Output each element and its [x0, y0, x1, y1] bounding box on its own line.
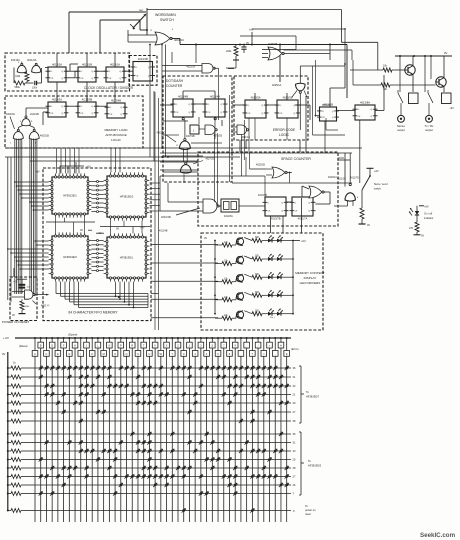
- svg-text:Q: Q: [91, 71, 93, 73]
- svg-text:+6V: +6V: [374, 170, 379, 173]
- svg-text:DOT/DASH: DOT/DASH: [166, 79, 184, 83]
- label words/min switch: [155, 13, 176, 22]
- svg-text:Q: Q: [126, 353, 128, 356]
- wire anti-bounce chain: [43, 96, 107, 125]
- bracket to HF3813E/7: [299, 366, 320, 423]
- inverter pair block: [221, 199, 239, 218]
- svg-text:O: O: [114, 353, 116, 356]
- wire 0V matrix left bus: [2, 352, 8, 511]
- svg-text:4025/1A: 4025/1A: [272, 84, 282, 87]
- wire space counter: [219, 186, 331, 206]
- wire into por box top: [13, 268, 15, 277]
- flip-flop 4013/5A: [245, 100, 266, 118]
- svg-text:ANTI-BOUNCE: ANTI-BOUNCE: [105, 133, 126, 137]
- svg-text:Q: Q: [91, 106, 93, 108]
- arrow label 4002: [33, 301, 37, 305]
- labels 40F13C 4011/3A: [11, 58, 37, 62]
- matrix row lines: [35, 368, 291, 511]
- svg-text:4001/1B: 4001/1B: [161, 215, 171, 219]
- terminal morse output: [397, 115, 405, 132]
- resistor 10k: [350, 65, 405, 73]
- svg-text:output: output: [425, 128, 433, 132]
- svg-text:power on: power on: [305, 508, 316, 512]
- flip-flop 4013/1B: [78, 67, 96, 82]
- wire led left bus: [214, 240, 216, 315]
- oscillator loop wires: [14, 62, 48, 84]
- flip-flop 4013/6B: [320, 107, 337, 121]
- wire from switch to clock box: [69, 12, 156, 53]
- wire chip2 to right edge: [149, 183, 160, 211]
- capacitor at 0V rail: [241, 42, 249, 53]
- labels 4020/1A 4011/7B right: [328, 176, 359, 180]
- svg-text:Q: Q: [148, 67, 150, 69]
- dashed box 64 character fifo memory: [43, 168, 151, 321]
- label 4011/1C arrow: [157, 132, 177, 143]
- svg-text:4013/5A: 4013/5A: [250, 95, 260, 99]
- svg-text:9: 9: [20, 121, 21, 123]
- wire chip interconnect top pair: [91, 181, 103, 213]
- dashed box clock oscillator divider: [5, 53, 130, 91]
- flip-flop 4013/4B: [107, 103, 125, 118]
- svg-text:1: 1: [10, 143, 11, 145]
- svg-text:U: U: [148, 353, 150, 356]
- bracket to HF3813E/3: [299, 432, 322, 495]
- wire +6V matrix bus: [3, 336, 291, 340]
- svg-text:Q: Q: [119, 78, 121, 80]
- svg-text:D: D: [51, 345, 53, 348]
- nor dome gate dot/dash upper: [176, 120, 190, 150]
- matrix row pin numbers group 2: [293, 432, 296, 496]
- svg-text:4011/5A: 4011/5A: [224, 215, 233, 218]
- svg-text:M: M: [103, 353, 105, 356]
- svg-text:Q: Q: [120, 114, 122, 116]
- label to power on reset: [293, 504, 316, 516]
- svg-text:MEMORY LOAD: MEMORY LOAD: [104, 128, 128, 132]
- svg-text:4007/1B: 4007/1B: [186, 136, 195, 138]
- svg-text:G: G: [68, 353, 70, 356]
- nand gate 4011/1A top: [162, 64, 219, 77]
- flip-flop 4013/4B dot: [173, 99, 193, 117]
- svg-text:switch: switch: [374, 188, 382, 191]
- svg-text:Q: Q: [91, 113, 93, 115]
- wire clock to antibounce stubs: [57, 82, 115, 103]
- svg-text:HF3813E/3: HF3813E/3: [63, 255, 77, 259]
- svg-text:580k: 580k: [15, 86, 21, 89]
- matrix row pin numbers group 1: [293, 366, 296, 423]
- svg-text:4011/1A: 4011/1A: [186, 66, 195, 69]
- transistor Q1 morse: [405, 56, 415, 92]
- nor gate U-4001/1C: [150, 29, 174, 45]
- svg-text:Par l: Par l: [270, 316, 275, 319]
- svg-text:N: N: [108, 345, 110, 348]
- capacitor 100n: [32, 81, 42, 90]
- svg-text:Q: Q: [61, 71, 63, 73]
- wire antibounce to chip1 top: [57, 148, 121, 173]
- svg-text:4011/4B: 4011/4B: [159, 231, 168, 233]
- svg-text:0V: 0V: [367, 224, 370, 227]
- resistor 12k: [353, 60, 436, 91]
- svg-text:+6V: +6V: [86, 166, 91, 169]
- svg-text:MEMORY CONTENT: MEMORY CONTENT: [295, 271, 325, 275]
- flip-flop 4013/3B: [78, 102, 96, 117]
- svg-text:COUNTER: COUNTER: [166, 84, 183, 88]
- svg-text:4013/8A: 4013/8A: [360, 100, 370, 104]
- resistor 100k mid: [15, 72, 33, 83]
- power on reset circuit: [13, 279, 31, 290]
- dashed box power on reset: [10, 277, 37, 321]
- svg-text:Q: Q: [281, 202, 283, 204]
- svg-text:Q: Q: [370, 109, 372, 111]
- flip-flop 4013/2A: [48, 67, 66, 82]
- wire bundle below dome gates: [8, 139, 37, 302]
- flip-flop 4013/3A: [48, 102, 66, 117]
- label on/off indicator: [417, 206, 434, 221]
- flip-flop 4013/8A: [355, 105, 375, 120]
- matrix diodes: [39, 366, 289, 513]
- wire chip interconnect bottom pair: [91, 240, 103, 272]
- svg-text:4011/1B: 4011/1B: [30, 113, 39, 116]
- nor gate 4023/1B: [256, 164, 292, 184]
- label memory content display led drivers: [295, 271, 325, 285]
- flip-flop 4013/1A: [106, 67, 124, 82]
- resistor 580k: [14, 81, 25, 89]
- svg-text:4011/1C: 4011/1C: [157, 132, 166, 135]
- svg-text:HF3813E/L: HF3813E/L: [120, 256, 134, 260]
- transistor Q2 tx/rx: [436, 56, 446, 92]
- dashed box memory content display led drivers: [201, 233, 323, 330]
- relay tx/rx: [428, 56, 454, 115]
- led driver row 1: [215, 235, 293, 247]
- wire feed lines into chip 3: [7, 240, 49, 270]
- svg-text:4013/4B: 4013/4B: [111, 98, 121, 102]
- label dot/dash counter: [166, 79, 184, 88]
- svg-text:4020/1A: 4020/1A: [328, 176, 337, 179]
- small box 4027 D: [182, 118, 216, 134]
- resistor store/send pulldown: [353, 206, 370, 227]
- wire bundle middle: [5, 44, 362, 233]
- wire 0V rail top right: [342, 10, 453, 71]
- svg-text:4011/3A: 4011/3A: [27, 58, 37, 62]
- svg-text:H: H: [74, 345, 76, 348]
- nand gate power on reset: [12, 290, 49, 299]
- svg-text:Q: Q: [61, 78, 63, 80]
- svg-text:DISPLAY: DISPLAY: [304, 276, 317, 280]
- svg-text:Q: Q: [61, 113, 63, 115]
- svg-text:SWITCH: SWITCH: [160, 18, 174, 22]
- nor gate 4025/3B: [262, 43, 284, 60]
- svg-text:(Reset): (Reset): [19, 344, 28, 348]
- label error code logic: [273, 128, 296, 137]
- resistor 100k por: [12, 299, 30, 317]
- svg-text:LED DRIVERS: LED DRIVERS: [300, 281, 321, 285]
- svg-text:Q: Q: [308, 211, 310, 213]
- wire to output stage: [325, 64, 384, 183]
- led driver row 3: [215, 272, 293, 284]
- chip HF3813E/3: [52, 236, 88, 278]
- svg-text:CLOCK OSCILLATOR / DIVIDER: CLOCK OSCILLATOR / DIVIDER: [84, 86, 134, 90]
- svg-text:(Error): (Error): [291, 347, 299, 351]
- chip HF3813E/L: [107, 237, 146, 278]
- nor gate 4002 dome right: [29, 125, 50, 144]
- svg-text:+6V: +6V: [13, 281, 18, 284]
- svg-text:0V: 0V: [80, 229, 83, 232]
- svg-text:4013/1B: 4013/1B: [138, 57, 148, 61]
- dashed box dot/dash counter: [163, 76, 232, 182]
- relay morse: [398, 56, 425, 115]
- svg-text:0V: 0V: [204, 237, 207, 240]
- flip-flop 4013/7A: [292, 197, 313, 216]
- flip-flop 4013/4A dot: [205, 99, 225, 117]
- svg-text:8: 8: [18, 62, 19, 64]
- svg-text:Q: Q: [148, 76, 150, 78]
- label 4001/1B arrow: [161, 208, 200, 219]
- terminal tx/rx output: [425, 115, 434, 132]
- svg-text:4013/5B: 4013/5B: [282, 95, 292, 99]
- nor dome gate 4025/1A inverted: [292, 66, 345, 130]
- label memory load anti-bounce logic: [104, 128, 128, 142]
- wire dot/dash internal: [183, 91, 215, 104]
- svg-text:0V: 0V: [246, 42, 249, 45]
- svg-text:(Spare): (Spare): [68, 333, 77, 337]
- chip HF3813E/2: [107, 176, 146, 217]
- svg-text:4013/6B: 4013/6B: [323, 102, 333, 106]
- svg-text:4002 /*/: 4002 /*/: [41, 305, 50, 308]
- nor dome gate 4027/2D lower: [180, 149, 214, 173]
- svg-text:Q: Q: [332, 111, 334, 113]
- label power on reset: [2, 320, 30, 324]
- wire clock chain: [66, 64, 133, 78]
- svg-text:+6V: +6V: [424, 206, 429, 209]
- svg-text:220k: 220k: [226, 50, 232, 53]
- svg-text:4002/1B: 4002/1B: [40, 135, 49, 138]
- svg-text:+6V: +6V: [36, 172, 41, 174]
- svg-text:+6V: +6V: [301, 239, 306, 243]
- svg-text:Q: Q: [188, 104, 190, 106]
- svg-text:100k: 100k: [15, 76, 21, 78]
- matrix row resistors: [7, 362, 35, 513]
- svg-text:0V: 0V: [421, 235, 424, 238]
- nand gate space input: [160, 176, 219, 213]
- wire error box right verticals: [290, 60, 345, 150]
- dashed box space counter: [198, 152, 338, 226]
- svg-text:Q: Q: [91, 78, 93, 80]
- wire long horizontal y183: [160, 133, 352, 206]
- svg-text:100k: 100k: [32, 87, 38, 89]
- svg-text:indicator: indicator: [424, 217, 434, 220]
- svg-text:SeekIC.com: SeekIC.com: [420, 532, 456, 539]
- svg-text:4011/7D: 4011/7D: [350, 177, 359, 180]
- svg-text:Q: Q: [188, 112, 190, 114]
- schmitt gate 40F13C: [17, 62, 26, 73]
- svg-text:Q: Q: [261, 113, 263, 115]
- svg-text:11: 11: [31, 121, 33, 123]
- svg-text:Q: Q: [281, 211, 283, 213]
- svg-text:8: 8: [357, 197, 358, 199]
- nor gate 4020/1A: [309, 186, 324, 198]
- led on/off indicator: [409, 208, 419, 222]
- nor gate 4011/1B up: [20, 108, 48, 126]
- flip-flop 4013/7B: [265, 197, 286, 216]
- svg-text:Q: Q: [61, 106, 63, 108]
- dashed box error code logic: [234, 76, 308, 140]
- resistor 270: [409, 222, 424, 238]
- wire led right bus +6V: [292, 239, 306, 315]
- svg-text:4025/3B: 4025/3B: [268, 43, 278, 46]
- svg-text:64 CHARACTER FIFO MEMORY: 64 CHARACTER FIFO MEMORY: [68, 311, 118, 315]
- svg-text:POWER ON RESET: POWER ON RESET: [2, 320, 30, 324]
- svg-text:SPACE COUNTER: SPACE COUNTER: [281, 157, 311, 161]
- wire dot/dash verticals: [184, 95, 244, 183]
- led driver row 5: [215, 309, 293, 321]
- gate 4011/1C error left: [231, 125, 250, 139]
- words/min switch: [130, 8, 147, 30]
- svg-text:-: -: [275, 353, 276, 356]
- svg-text:4013/7B: 4013/7B: [270, 216, 280, 220]
- svg-text:4011/7A: 4011/7A: [298, 216, 308, 220]
- led driver row 4: [215, 290, 293, 302]
- svg-text:0V: 0V: [12, 314, 15, 317]
- labels 0V +6V between chip rows: [46, 218, 150, 235]
- dashed box memory load anti-bounce: [5, 96, 143, 148]
- svg-text:+6V: +6V: [450, 107, 455, 110]
- svg-text:0V: 0V: [444, 51, 448, 55]
- svg-text:LOGIC: LOGIC: [279, 133, 290, 137]
- nand gate store/send: [334, 153, 358, 206]
- svg-text:Q: Q: [120, 107, 122, 109]
- svg-text:Q: Q: [293, 113, 295, 115]
- svg-text:Q: Q: [370, 116, 372, 118]
- label 4002/3A: [6, 113, 15, 129]
- flip-flop 4013/1B second: [133, 62, 153, 82]
- svg-text:On / off: On / off: [424, 213, 432, 216]
- svg-text:4011/1C: 4011/1C: [337, 178, 346, 181]
- svg-text:0V: 0V: [116, 228, 119, 231]
- schmitt gate 4011/3A: [32, 61, 41, 73]
- svg-text:HF3813E/1: HF3813E/1: [63, 194, 77, 198]
- svg-text:reset: reset: [305, 512, 311, 516]
- svg-text:WORDS/MIN: WORDS/MIN: [155, 13, 176, 17]
- svg-text:LOGIC: LOGIC: [111, 138, 121, 142]
- svg-text:R: R: [131, 345, 133, 348]
- led driver row 2: [215, 254, 293, 266]
- nor gate 4002 dome left: [10, 125, 23, 144]
- svg-text:Q: Q: [332, 117, 334, 119]
- wire error chain: [255, 93, 287, 105]
- svg-text:HF3813E/3: HF3813E/3: [308, 464, 322, 468]
- chip HF3813E/1: [52, 177, 88, 214]
- wire mesh extra: [5, 10, 352, 318]
- resistor 220k: [226, 45, 239, 61]
- svg-text:Q: Q: [261, 105, 263, 107]
- wire feed lines into chip 1: [14, 181, 49, 211]
- svg-text:4023/1B: 4023/1B: [256, 164, 265, 167]
- svg-text:4027/2D: 4027/2D: [205, 157, 214, 160]
- svg-text:C: C: [46, 353, 48, 356]
- svg-text:0V: 0V: [2, 352, 6, 356]
- flip-flop 4013/5B: [277, 100, 298, 118]
- gate 4027/1B mid: [199, 125, 223, 138]
- svg-text:+6V: +6V: [140, 227, 145, 230]
- store/send switch: [362, 168, 379, 208]
- wire fifo to led drivers: [151, 92, 218, 330]
- svg-text:Store / send: Store / send: [374, 183, 388, 186]
- wire +6V chip supply: [36, 162, 91, 174]
- svg-text:Q: Q: [220, 112, 222, 114]
- svg-text:Q: Q: [119, 71, 121, 73]
- svg-text:HF3813E/2: HF3813E/2: [120, 195, 134, 199]
- svg-text:output: output: [397, 128, 405, 132]
- label store/send switch: [374, 183, 388, 191]
- svg-text:+ 6V: + 6V: [3, 336, 9, 340]
- svg-text:Q: Q: [308, 202, 310, 204]
- wire chip bottom nested routing: [56, 282, 159, 309]
- svg-text:ERROR CODE: ERROR CODE: [273, 128, 296, 132]
- dashed box around 4013/1B: [129, 56, 157, 86]
- svg-text:11: 11: [176, 145, 178, 147]
- matrix key columns: [32, 337, 289, 522]
- svg-text:270: 270: [409, 227, 414, 230]
- svg-text:4002/3A: 4002/3A: [6, 113, 15, 116]
- svg-text:HF3813E/7: HF3813E/7: [306, 395, 320, 399]
- wire from gate output to right: [147, 29, 347, 99]
- svg-text:Q: Q: [220, 104, 222, 106]
